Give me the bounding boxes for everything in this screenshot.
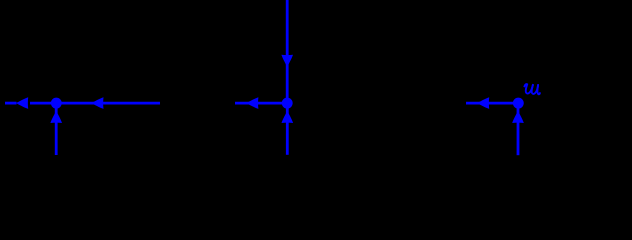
arrowhead up on right vertical	[512, 111, 524, 123]
wire: middle bottom vertical line	[286, 103, 289, 155]
wire: left horizontal line stub before arrow	[5, 102, 17, 105]
arrowhead on middle horizontal	[246, 97, 258, 109]
arrowhead up on left vertical	[50, 111, 62, 123]
arrowhead down on middle top vertical	[281, 55, 293, 67]
node: right junction dot	[513, 98, 524, 109]
wire: left horizontal line	[30, 102, 160, 105]
arrowhead up on middle bottom vertical	[282, 111, 294, 123]
arrowhead on right horizontal	[477, 97, 489, 109]
label u	[524, 84, 540, 94]
wire: left vertical line	[55, 103, 58, 155]
node: middle junction dot	[282, 98, 293, 109]
wire: middle horizontal line	[235, 102, 287, 105]
arrowhead left-end of left line	[16, 97, 28, 109]
wire: right vertical line	[517, 103, 520, 155]
wire: right horizontal line	[466, 102, 518, 105]
node: left junction dot	[51, 98, 62, 109]
wire: middle top vertical line	[286, 0, 289, 103]
arrowhead mid of left line	[91, 97, 103, 109]
